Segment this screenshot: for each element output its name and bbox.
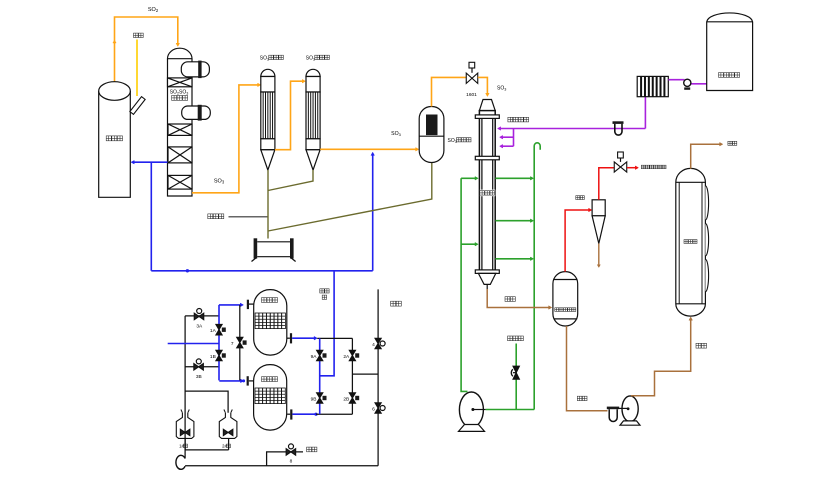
wire: air line down-leg [150, 162, 152, 271]
LAB cooler E5 [637, 76, 668, 96]
SO3 cooler E4 [306, 69, 320, 76]
wire: bottom drain header [185, 465, 378, 467]
valve 1A [216, 324, 222, 335]
label furnace [106, 136, 111, 141]
wire: fresh water line [515, 344, 517, 410]
wire: cooler2 drain [268, 170, 313, 191]
wire: column right outlet 2 [495, 220, 531, 222]
dryer2 inlet nozzle [247, 376, 249, 385]
dryer tank D2 [254, 365, 287, 431]
wire: pump discharge [486, 409, 535, 411]
svg-text:SO2SO3: SO2SO3 [170, 90, 189, 96]
label process air [320, 289, 324, 293]
wire: column right outlet 1 [495, 177, 531, 179]
tail gas control valve [614, 162, 627, 172]
hand valve on fresh water [513, 366, 519, 379]
svg-text:2B: 2B [343, 396, 349, 402]
label sulfonic acid [577, 396, 582, 400]
wire: to dryer2 inlet [219, 380, 240, 382]
LAB pump P3 [684, 79, 691, 86]
dryer1 inlet nozzle [247, 300, 249, 309]
label hydrolysis [728, 141, 732, 145]
wire: LAB feed main [501, 128, 646, 130]
label sulfonic acid [696, 343, 701, 348]
valve 2B [349, 393, 355, 404]
label separator [555, 308, 559, 312]
dryer1 outlet nozzle [290, 333, 292, 343]
wire: outlet manifold bottom [316, 413, 352, 415]
wire: tail gas to cyclone [565, 210, 589, 272]
wire: pump to tank [691, 83, 707, 85]
label tail gas [576, 196, 580, 200]
wire: SO3 from converter [192, 85, 258, 193]
LAB storage tank T1 [707, 13, 753, 91]
converter bed 4 [168, 175, 192, 189]
vent gooseneck [534, 143, 540, 150]
wire: filter drain diagonal [268, 163, 432, 232]
dryer tank D1 [254, 290, 287, 356]
svg-text:7: 7 [231, 341, 234, 347]
wire: to tail gas absorption [627, 167, 636, 169]
svg-text:2A: 2A [343, 354, 350, 360]
svg-text:SO2: SO2 [148, 7, 159, 13]
knockout bottle 2 [224, 410, 226, 413]
wire: vent line [377, 289, 379, 465]
wire: inlet manifold vertical [218, 305, 220, 381]
wire: cooler to pump [668, 79, 684, 81]
knockout bottle 1 [181, 410, 183, 413]
wire: process air down-leg [320, 271, 334, 376]
label vent [391, 301, 396, 306]
inline strainer S1 [613, 121, 624, 124]
valve 7 [237, 337, 243, 348]
wire: bypass line valve7 [239, 305, 241, 381]
wire: cyclone top to tailgas valve [599, 168, 614, 200]
aging tank T3 [676, 168, 706, 316]
SO3 cooler E3 [261, 69, 275, 76]
svg-text:SO3: SO3 [214, 179, 225, 185]
valve 4 [375, 338, 381, 349]
valve 9A [317, 350, 323, 361]
wire: instrument air line [229, 216, 269, 218]
dryer2 outlet nozzle [290, 409, 292, 419]
wire: branch into column left 1 [461, 177, 476, 179]
drain seal loop [176, 455, 185, 469]
wire: dryer2 outlet [292, 413, 316, 415]
label instrument air [208, 214, 213, 219]
valve 6 [375, 403, 381, 414]
converter bed 3 [168, 147, 192, 163]
wire: 2A/2B vertical [351, 338, 353, 414]
wire: atmosphere branch [267, 452, 303, 466]
wire: dryer1 outlet [292, 337, 315, 339]
wire: LAB from cooler [644, 97, 646, 129]
wire: circulation riser [533, 146, 535, 410]
valve 3A [194, 313, 204, 320]
sulfonator column R1 [479, 100, 495, 111]
furnace inlet nozzle (diagonal) [130, 97, 145, 115]
label LAB tank [719, 73, 724, 78]
valve 9B [317, 393, 323, 404]
wire: 3A line [185, 315, 219, 317]
gas-liquid separator V2 [553, 272, 578, 326]
wire: air feed stub [168, 343, 219, 345]
valve 8 [286, 449, 296, 456]
svg-text:9B: 9B [311, 396, 317, 402]
wire: cyclone bottom drain [598, 244, 600, 265]
label atmosphere [307, 447, 312, 452]
wire: to dryer1 inlet [219, 304, 241, 306]
wire: branch into column left 2 [461, 243, 476, 245]
wire: process air riser to mix point [372, 155, 374, 271]
acid pump P2 [622, 396, 638, 422]
valve 3B [194, 364, 204, 371]
wire: filter top to valve 1601 [432, 77, 467, 106]
wire: pump to aging tank [631, 320, 691, 396]
svg-text:9A: 9A [311, 354, 318, 360]
svg-text:4: 4 [372, 342, 375, 348]
wire: SO2 line furnace to converter [115, 17, 178, 82]
wire: 3B line [185, 366, 219, 368]
valve 2A [349, 350, 355, 361]
label tail gas absorption system [641, 165, 645, 169]
svg-text:3B: 3B [196, 374, 202, 380]
svg-text:1A: 1A [210, 328, 217, 334]
converter bed 1 [168, 78, 193, 87]
wire: regen cross to bottle2 [185, 391, 228, 413]
wire: cooler1 to cooler2 [275, 81, 303, 150]
heat exchanger drum E1 [181, 62, 209, 77]
control valve 1601 [466, 73, 478, 83]
svg-text:6: 6 [372, 406, 375, 412]
wire: dried air header [151, 270, 372, 272]
cyclone CY1 [592, 200, 605, 216]
label fresh water [508, 336, 513, 341]
valve 1B [216, 350, 222, 361]
wire: separator bottom to pump [567, 326, 608, 411]
svg-text:1601: 1601 [466, 92, 477, 98]
wire: regen air left header [184, 316, 186, 450]
wire: cooler1 drain [267, 170, 269, 239]
wire: sulfur feed line [136, 40, 138, 97]
converter column C1 [168, 59, 193, 196]
wire: sulfonic acid to separator [487, 289, 549, 308]
svg-text:1B: 1B [210, 354, 216, 360]
seal pot tank T2 [254, 238, 258, 258]
svg-text:SO3: SO3 [391, 131, 401, 137]
heat exchanger drum E2 [182, 106, 211, 119]
suction strainer S2 [607, 407, 619, 410]
wire: cross to vent [352, 373, 378, 375]
wire: column right outlet 3 [495, 258, 531, 260]
wire: combustion air line to furnace [134, 161, 168, 163]
wire: valve to sulfonator top [478, 77, 488, 93]
wire: bottle bottoms header [185, 449, 229, 451]
label aging tank [684, 239, 698, 245]
svg-text:8: 8 [290, 459, 293, 465]
junction dot [186, 269, 189, 272]
wire: LAB branch [513, 129, 515, 147]
label LAB [508, 117, 513, 122]
label sulfonic acid [505, 297, 510, 302]
SO3 filter vessel V1 [419, 107, 444, 163]
svg-text:3A: 3A [196, 324, 203, 330]
label sulfur [134, 33, 139, 37]
wire: SO3/air line to filter [320, 148, 417, 150]
furnace F1 (sulfur furnace) [99, 91, 131, 197]
label sulfonator [480, 190, 495, 197]
wire: outlet manifold top [317, 337, 352, 339]
wire: 9A/9B vertical [319, 338, 321, 414]
circulation pump P1 [459, 392, 483, 427]
wire: circulation left down-comer [461, 178, 467, 391]
wire: aging tank overhead to hydrolysis [691, 144, 721, 169]
converter bed 2 [168, 124, 192, 135]
